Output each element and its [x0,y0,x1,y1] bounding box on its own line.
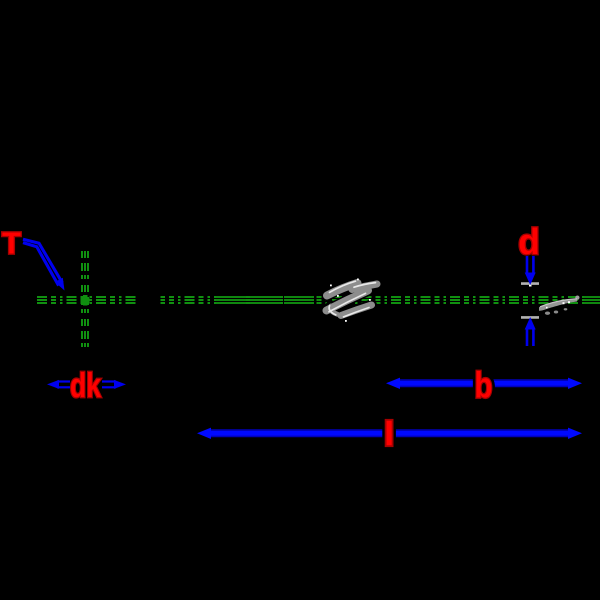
svg-text:b: b [475,365,493,406]
svg-text:dk: dk [70,367,101,405]
svg-text:T: T [2,226,21,261]
svg-text:d: d [518,221,540,262]
